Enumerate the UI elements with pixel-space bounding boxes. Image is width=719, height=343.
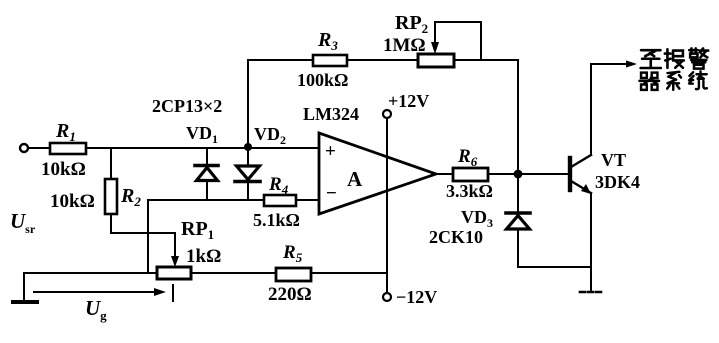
wiper arrow RP1 (171, 256, 179, 267)
resistor R2 (105, 179, 117, 214)
svg-text:−: − (326, 183, 337, 204)
node junction at + input (244, 143, 252, 151)
wire VD3 to emitter rail (519, 266, 591, 268)
svg-text:10kΩ: 10kΩ (50, 191, 95, 212)
wire R5 to -12V line (311, 272, 387, 274)
wire R2 branch (110, 148, 112, 179)
wire collector to alarm arrow (591, 63, 629, 65)
wiper position tick (172, 285, 174, 301)
svg-text:3DK4: 3DK4 (595, 172, 640, 192)
wire - node down to ground rail (147, 200, 149, 273)
label to alarm line2: 器系统 (639, 71, 706, 89)
input terminal (20, 144, 28, 152)
wire op-amp output to R6 (436, 173, 453, 175)
wire R4 to - input (296, 199, 319, 201)
svg-text:2CK10: 2CK10 (429, 227, 483, 247)
wire R1 to op-amp + input (86, 147, 319, 149)
diode VD3 (506, 174, 530, 267)
+12V terminal (383, 110, 391, 118)
wire RP2 to output node (454, 60, 518, 174)
wire VD3 corner (518, 266, 519, 268)
diode VD2 (235, 148, 260, 200)
resistor R1 (50, 143, 86, 154)
wire R6 to base (488, 173, 569, 175)
svg-text:10kΩ: 10kΩ (41, 159, 86, 180)
resistor R3 (313, 55, 347, 66)
ground (emitter) (580, 291, 604, 294)
wire R2 bottom to RP1 wiper (111, 214, 175, 261)
svg-text:5.1kΩ: 5.1kΩ (253, 210, 300, 230)
svg-text:2CP13×2: 2CP13×2 (152, 96, 222, 116)
node junction output (514, 170, 523, 179)
Ug dimension arrow (34, 291, 158, 293)
svg-text:1MΩ: 1MΩ (383, 35, 426, 56)
wire R3 to RP2 (347, 59, 418, 61)
transistor VT (570, 64, 591, 292)
svg-text:VT: VT (601, 150, 626, 170)
diode VD1 (195, 148, 218, 200)
svg-text:+: + (325, 141, 336, 162)
potentiometer RP1 (157, 267, 191, 279)
svg-text:1kΩ: 1kΩ (186, 246, 221, 267)
resistor R4 (264, 195, 296, 206)
op-amp power vertical (386, 118, 388, 293)
svg-text:220Ω: 220Ω (268, 284, 312, 305)
ground left (23, 273, 25, 301)
resistor R5 (276, 268, 311, 281)
label to alarm line1: 至报警 (641, 48, 709, 68)
svg-text:A: A (347, 167, 363, 191)
potentiometer RP2 (418, 54, 454, 67)
wire feedback vertical (247, 60, 249, 147)
ground rail bottom (24, 272, 157, 274)
resistor R6 (453, 168, 488, 181)
wire RP1 to R5 (191, 272, 276, 274)
svg-text:100kΩ: 100kΩ (297, 70, 348, 90)
svg-text:−12V: −12V (396, 287, 437, 307)
wire diode bottom rail to R4 (148, 199, 264, 201)
svg-text:LM324: LM324 (303, 104, 359, 124)
svg-text:+12V: +12V (388, 91, 429, 111)
-12V terminal (383, 293, 391, 301)
op-amp A (LM324) (319, 133, 436, 214)
wire feedback top to R3 (248, 59, 313, 61)
RP2 wiper arrow (434, 22, 436, 42)
wire RP2 wiper loop (435, 22, 481, 60)
svg-text:3.3kΩ: 3.3kΩ (446, 181, 493, 201)
wire input to R1 (28, 147, 50, 149)
